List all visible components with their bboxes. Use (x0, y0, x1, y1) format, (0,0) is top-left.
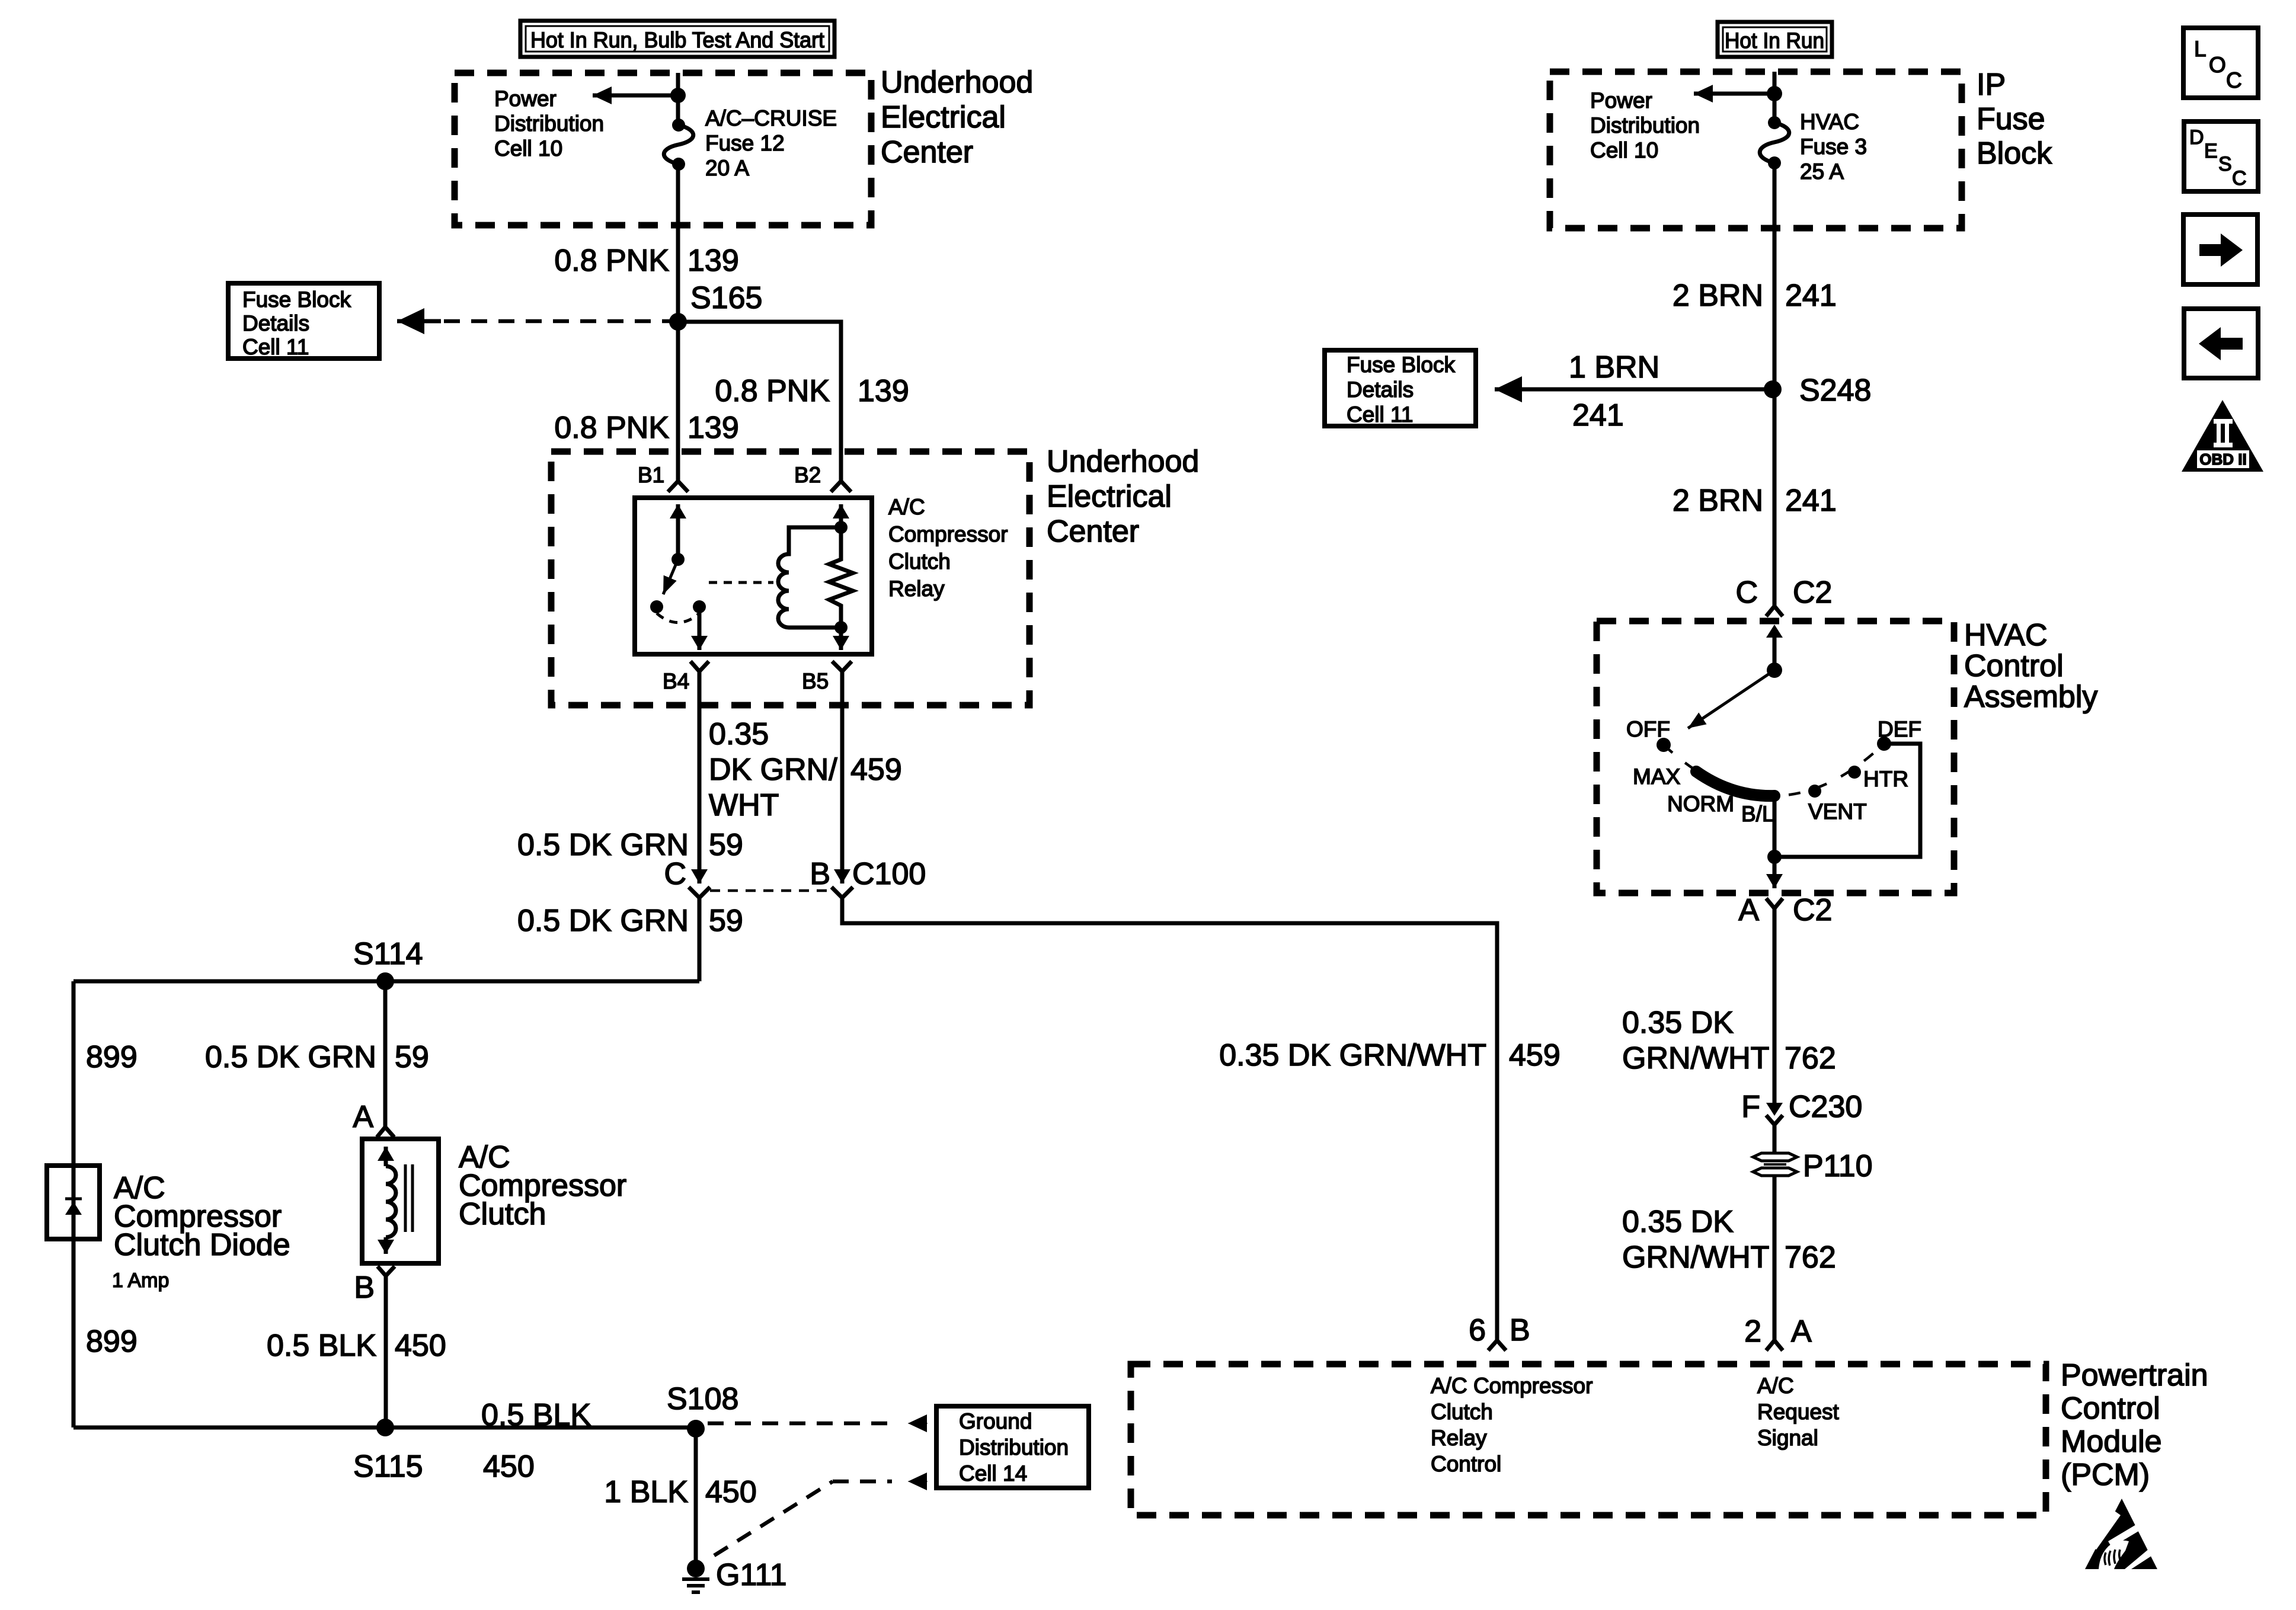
connector C2 pin C female fork (1766, 606, 1783, 616)
connector B1 female fork (668, 481, 688, 492)
node S115 (376, 1419, 394, 1436)
svg-text:Compressor: Compressor (888, 522, 1008, 546)
svg-text:450: 450 (483, 1449, 535, 1484)
svg-text:C: C (664, 857, 686, 891)
svg-text:B1: B1 (638, 463, 664, 487)
svg-text:6: 6 (1469, 1313, 1486, 1347)
wire B/L down to output node (1773, 795, 1777, 857)
dashed wire G111 to ground distribution (diagonal) (714, 1481, 833, 1555)
svg-text:S248: S248 (1799, 373, 1871, 408)
label A/C Compressor Clutch Diode (112, 1171, 290, 1292)
svg-text:Details: Details (1347, 377, 1414, 402)
dashed box: HVAC Control Assembly (1597, 621, 1954, 893)
dashed wire S108 to ground distribution (708, 1422, 892, 1426)
svg-text:Fuse Block: Fuse Block (1347, 353, 1456, 377)
svg-text:Fuse 12: Fuse 12 (705, 131, 785, 155)
svg-text:S165: S165 (690, 281, 762, 315)
svg-text:Cell 10: Cell 10 (494, 136, 562, 161)
diode symbol D1 (65, 1199, 82, 1215)
A/C compressor clutch diode box (47, 1166, 100, 1239)
svg-text:0.5 BLK: 0.5 BLK (481, 1398, 591, 1432)
svg-text:Fuse 3: Fuse 3 (1800, 135, 1867, 159)
svg-text:0.8 PNK: 0.8 PNK (554, 411, 669, 445)
svg-text:A: A (1738, 893, 1759, 927)
svg-text:139: 139 (687, 244, 739, 278)
wire label 2 BRN 241 (below S248) (1673, 484, 1837, 518)
svg-text:C: C (2232, 167, 2247, 190)
svg-text:C100: C100 (852, 857, 926, 891)
svg-text:D: D (2189, 126, 2204, 149)
node: power distribution tap (670, 88, 686, 103)
A/C compressor clutch box (362, 1139, 439, 1263)
svg-text:DEF: DEF (1878, 717, 1921, 741)
svg-text:E: E (2204, 140, 2218, 162)
svg-text:Powertrain: Powertrain (2061, 1358, 2208, 1393)
svg-text:WHT: WHT (709, 788, 779, 822)
wire label 0.35 DK GRN/ WHT 459 (709, 717, 902, 822)
relay resistor (829, 527, 853, 628)
svg-text:A/C–CRUISE: A/C–CRUISE (705, 106, 837, 130)
svg-text:762: 762 (1785, 1240, 1836, 1275)
label A/C Compressor Clutch Relay (888, 495, 1008, 601)
svg-text:450: 450 (395, 1329, 446, 1363)
header box "Hot In Run, Bulb Test And Start" (520, 21, 834, 57)
svg-text:P110: P110 (1803, 1149, 1873, 1183)
label Power Distribution Cell 10 (right) (1590, 88, 1700, 162)
svg-text:2: 2 (1744, 1314, 1761, 1349)
svg-text:O: O (2209, 53, 2226, 77)
svg-text:Power: Power (494, 87, 557, 111)
svg-text:0.35: 0.35 (709, 717, 769, 751)
svg-text:B2: B2 (794, 463, 821, 487)
svg-text:0.35 DK GRN/WHT: 0.35 DK GRN/WHT (1219, 1038, 1486, 1073)
svg-text:A: A (353, 1100, 373, 1134)
switch wiper arm toward OFF (1688, 670, 1774, 728)
wire S114 down to clutch A (383, 981, 388, 1127)
clutch pin B arrow (male, down) (384, 1237, 388, 1254)
wire label 0.8 PNK 139 (above S165) (554, 244, 738, 278)
svg-text:A/C: A/C (1757, 1374, 1794, 1398)
wire S248 to fuse block details (1495, 388, 1773, 392)
dashed connector interface line C100 (710, 889, 834, 892)
svg-text:C2: C2 (1793, 893, 1832, 927)
connector C100 pin B (arrow + chevron) (810, 853, 926, 898)
svg-text:GRN/WHT: GRN/WHT (1622, 1041, 1769, 1076)
svg-text:Distribution: Distribution (1590, 113, 1700, 137)
svg-text:Assembly: Assembly (1964, 680, 2097, 714)
relay switch wiper arm (663, 559, 678, 594)
svg-text:B/L: B/L (1741, 802, 1774, 826)
svg-text:459: 459 (1509, 1038, 1560, 1073)
wire C2-A down to C230 (1773, 908, 1777, 1110)
box Fuse Block Details Cell 11 (left) (228, 283, 379, 359)
svg-text:S108: S108 (667, 1382, 738, 1416)
svg-text:C230: C230 (1789, 1090, 1862, 1124)
ESD symbol (2085, 1499, 2159, 1569)
clutch coil (386, 1166, 396, 1237)
switch contact left (650, 600, 663, 613)
HVAC switch input arrow (male, down) (1773, 628, 1777, 670)
arrow into ground distribution (lower) (908, 1481, 928, 1482)
svg-text:A/C: A/C (888, 495, 925, 519)
label A/C Request Signal (1757, 1374, 1840, 1450)
PCM dashed box (1131, 1364, 2046, 1515)
svg-text:Module: Module (2061, 1425, 2162, 1459)
relay B1 pin arrow (male, up) (676, 504, 680, 559)
svg-text:59: 59 (709, 828, 743, 862)
fuse F3 (HVAC Fuse 3 25A) (1760, 116, 1789, 169)
node S114 (376, 972, 394, 990)
relay coil (778, 527, 841, 628)
clutch pin A arrow (male, down into box) (384, 1147, 388, 1166)
svg-text:459: 459 (850, 753, 902, 787)
connector pin 6 B fork into PCM (1469, 1313, 1530, 1350)
wire label 0.5 DK GRN 59 (below C100) (517, 904, 743, 938)
switch contact right (693, 600, 706, 613)
svg-text:Distribution: Distribution (959, 1435, 1069, 1459)
svg-text:Clutch: Clutch (1431, 1400, 1493, 1424)
svg-text:0.5 DK GRN: 0.5 DK GRN (517, 828, 689, 862)
label HVAC Control Assembly (1964, 618, 2097, 714)
svg-text:L: L (2194, 37, 2207, 61)
svg-text:B: B (354, 1270, 375, 1305)
svg-text:HVAC: HVAC (1964, 618, 2048, 652)
svg-text:59: 59 (709, 904, 743, 938)
splice S248 (1764, 380, 1782, 398)
dashed actuation line (709, 581, 773, 584)
svg-text:Center: Center (881, 135, 973, 169)
node: power distribution tap (right) (1767, 86, 1782, 101)
connector B female fork (378, 1266, 395, 1276)
DEF wrap wire (1774, 744, 1920, 857)
wire C100-B down and right to PCM pin B (842, 898, 1497, 1340)
svg-text:0.35 DK: 0.35 DK (1622, 1205, 1734, 1239)
svg-text:0.35 DK: 0.35 DK (1622, 1006, 1734, 1040)
svg-text:Power: Power (1590, 88, 1652, 113)
svg-text:2 BRN: 2 BRN (1673, 484, 1763, 518)
svg-text:Cell 11: Cell 11 (242, 335, 309, 359)
wire label 0.5 DK GRN 59 (above C100) (517, 828, 743, 862)
svg-text:IP: IP (1977, 68, 2006, 102)
svg-text:899: 899 (86, 1040, 137, 1074)
connector B5 female fork (832, 661, 852, 671)
svg-text:20 A: 20 A (705, 156, 749, 180)
output arrow (male, down) (1773, 857, 1777, 888)
box Ground Distribution Cell 14 (936, 1406, 1089, 1488)
wire C230 to P110 (1773, 1125, 1777, 1154)
wire label 0.35 DK GRN/WHT 762 (upper) (1622, 1006, 1836, 1076)
connector C230 pin F (arrow + chevron) (1741, 1090, 1862, 1125)
position OFF (1657, 738, 1671, 752)
wire label 0.8 PNK 139 (B2 branch) (715, 374, 909, 408)
right-arrow icon (2183, 215, 2257, 284)
svg-text:Underhood: Underhood (1047, 444, 1199, 479)
label IP Fuse Block (1977, 68, 2052, 171)
svg-text:241: 241 (1572, 398, 1624, 433)
grommet P110 (1753, 1149, 1873, 1183)
svg-text:0.8 PNK: 0.8 PNK (715, 374, 830, 408)
arrow to power distribution (593, 94, 678, 98)
svg-text:Relay: Relay (1431, 1426, 1487, 1450)
svg-text:Clutch: Clutch (459, 1197, 546, 1231)
wire branch S165 to B2 (678, 322, 841, 481)
DESC icon (2184, 121, 2258, 191)
label A/C Compressor Clutch Relay Control (1431, 1374, 1593, 1476)
LOC icon (2183, 28, 2258, 98)
svg-text:(PCM): (PCM) (2061, 1458, 2150, 1492)
svg-text:Cell 10: Cell 10 (1590, 138, 1658, 162)
svg-text:Cell 14: Cell 14 (959, 1461, 1027, 1486)
wire label 0.5 BLK / 450 (right of S115) (481, 1398, 591, 1484)
label Underhood Electrical Center (881, 65, 1033, 169)
ground G111 (682, 1558, 787, 1592)
svg-text:1 BLK: 1 BLK (604, 1475, 688, 1509)
position HTR (1848, 766, 1861, 779)
svg-text:Clutch: Clutch (888, 549, 951, 574)
svg-text:G111: G111 (716, 1558, 787, 1592)
svg-text:25 A: 25 A (1800, 159, 1844, 184)
svg-text:Details: Details (242, 311, 309, 335)
svg-text:GRN/WHT: GRN/WHT (1622, 1240, 1769, 1275)
wire label 1 BRN / 241 (1569, 350, 1659, 433)
connector A female fork (377, 1127, 394, 1137)
svg-text:Ground: Ground (959, 1409, 1032, 1433)
wire fuse to S248 (1773, 163, 1777, 389)
svg-text:F: F (1741, 1090, 1760, 1124)
svg-text:Fuse: Fuse (1977, 102, 2045, 136)
wire label 0.5 DK GRN 59 (clutch feed) (205, 1040, 429, 1074)
svg-text:B: B (1510, 1313, 1530, 1347)
svg-text:1 Amp: 1 Amp (112, 1269, 169, 1292)
dashed box: Underhood Electrical Center (relay) (551, 452, 1029, 705)
svg-text:OFF: OFF (1626, 717, 1670, 741)
arrow into ground distribution (upper) (908, 1423, 928, 1424)
svg-text:139: 139 (687, 411, 739, 445)
svg-text:C2: C2 (1793, 575, 1832, 610)
output node (1767, 850, 1782, 864)
svg-text:B5: B5 (802, 669, 829, 693)
svg-text:0.8 PNK: 0.8 PNK (554, 244, 669, 278)
wire S108 down to G111 (694, 1429, 698, 1569)
svg-text:Hot In Run: Hot In Run (1725, 28, 1824, 53)
svg-text:B: B (810, 857, 830, 891)
svg-text:HTR: HTR (1863, 767, 1908, 791)
svg-text:C: C (2226, 68, 2242, 92)
dashed contact arc (657, 613, 699, 623)
svg-text:A/C Compressor: A/C Compressor (1431, 1374, 1593, 1398)
OBD II icon (2182, 400, 2263, 472)
svg-text:1 BRN: 1 BRN (1569, 350, 1659, 385)
svg-text:899: 899 (86, 1324, 137, 1359)
svg-text:S: S (2218, 153, 2232, 175)
wire from box top to fuse (1773, 72, 1777, 123)
connector C100 pin C (arrow + chevron) (664, 853, 710, 898)
svg-text:Electrical: Electrical (881, 100, 1006, 135)
wire fuse to S165 (676, 164, 680, 322)
svg-text:HVAC: HVAC (1800, 110, 1859, 134)
wire from box top to fuse (676, 73, 680, 125)
svg-text:A: A (1791, 1314, 1812, 1349)
label HVAC Fuse 3 25 A (1800, 110, 1867, 184)
connector B2 female fork (831, 481, 851, 492)
switch pivot node (1767, 662, 1782, 678)
svg-text:Control: Control (1431, 1452, 1501, 1476)
svg-text:0.5 DK GRN: 0.5 DK GRN (205, 1040, 376, 1074)
svg-text:241: 241 (1785, 279, 1837, 313)
header box "Hot In Run" (1718, 22, 1832, 57)
arrow to power distribution (right) (1694, 92, 1774, 96)
fuse F12 (A/C-CRUISE Fuse 12 20A) (664, 119, 693, 171)
svg-text:Block: Block (1977, 136, 2052, 171)
svg-text:C: C (1735, 575, 1758, 610)
label A/C Compressor Clutch (459, 1140, 626, 1231)
svg-text:Control: Control (2061, 1391, 2160, 1426)
relay box (635, 498, 872, 654)
svg-text:Fuse Block: Fuse Block (242, 287, 351, 312)
svg-text:2 BRN: 2 BRN (1673, 279, 1763, 313)
thick contact arc MAX/NORM to B/L (1696, 772, 1774, 796)
dashed box: Underhood Electrical Center (fuse) (455, 73, 871, 225)
wire label 0.35 DK GRN/WHT 459 (PCM branch) (1219, 1038, 1560, 1073)
wire left branch down to diode (72, 981, 76, 1427)
svg-text:VENT: VENT (1808, 799, 1867, 824)
label Underhood Electrical Center 2 (1047, 444, 1199, 549)
svg-text:762: 762 (1785, 1041, 1836, 1076)
svg-text:0.5 DK GRN: 0.5 DK GRN (517, 904, 689, 938)
connector C2 pin A female fork (1766, 898, 1783, 908)
svg-text:Clutch Diode: Clutch Diode (114, 1228, 290, 1262)
wire P110 to PCM pin A (1773, 1176, 1777, 1340)
wire C100-C down to S114 line (698, 898, 702, 981)
svg-text:241: 241 (1785, 484, 1837, 518)
wire S165 to B1 (676, 322, 680, 481)
position VENT (1808, 785, 1821, 798)
svg-text:Signal: Signal (1757, 1426, 1818, 1450)
dashed arrow to fuse block details box (443, 319, 678, 324)
svg-text:Electrical: Electrical (1047, 479, 1172, 514)
connector pin 2 A fork into PCM (1744, 1314, 1812, 1350)
coil bottom node (834, 621, 848, 634)
bottom ground rail (73, 1426, 696, 1430)
svg-text:Underhood: Underhood (881, 65, 1033, 100)
svg-text:Control: Control (1964, 649, 2064, 683)
node S108 (687, 1420, 705, 1438)
relay B2 pin arrow (male, up) (839, 504, 843, 527)
svg-text:Request: Request (1757, 1400, 1840, 1424)
wire label 2 BRN 241 (above S248) (1673, 279, 1837, 313)
svg-text:S115: S115 (353, 1449, 423, 1484)
label Powertrain Control Module (PCM) (2061, 1358, 2208, 1492)
dashed box: IP Fuse Block (1550, 72, 1962, 228)
svg-text:Distribution: Distribution (494, 111, 604, 136)
position DEF (1877, 737, 1891, 751)
svg-text:Center: Center (1047, 514, 1139, 549)
svg-text:OBD II: OBD II (2199, 450, 2246, 468)
wire label 0.8 PNK 139 (B1 branch) (554, 411, 738, 445)
label A/C-CRUISE Fuse 12 20 A (705, 106, 837, 180)
wire label 0.35 DK GRN/WHT 762 (lower) (1622, 1205, 1836, 1275)
coil top node (834, 521, 848, 534)
relay B4 pin arrow (male, down) from right contact (698, 607, 702, 650)
dashed dial arc (1664, 744, 1884, 796)
wire label 0.5 BLK 450 (267, 1329, 446, 1363)
box Fuse Block Details Cell 11 (right) (1325, 350, 1476, 427)
svg-text:Cell 11: Cell 11 (1347, 402, 1413, 427)
relay B5 pin arrow (male, down) (839, 628, 843, 650)
svg-text:Relay: Relay (888, 577, 945, 601)
wire clutch B down to S115 (384, 1276, 388, 1427)
label Power Distribution Cell 10 (494, 87, 604, 161)
relay switch pivot (671, 553, 685, 566)
wire label 1 BLK 450 (604, 1475, 756, 1509)
svg-text:0.5 BLK: 0.5 BLK (267, 1329, 376, 1363)
svg-text:S114: S114 (353, 937, 423, 971)
left-arrow icon (2184, 309, 2258, 378)
svg-text:DK GRN/: DK GRN/ (709, 753, 837, 787)
wire S114 horizontal (73, 980, 699, 984)
clutch plates (404, 1164, 407, 1232)
svg-text:B4: B4 (663, 669, 689, 693)
svg-text:MAX: MAX (1633, 764, 1680, 789)
svg-text:59: 59 (395, 1040, 429, 1074)
svg-text:Hot In Run, Bulb Test And Star: Hot In Run, Bulb Test And Start (530, 28, 825, 52)
connector B4 female fork (690, 661, 709, 671)
svg-text:450: 450 (705, 1475, 757, 1509)
svg-text:139: 139 (858, 374, 909, 408)
svg-text:NORM: NORM (1667, 792, 1734, 816)
